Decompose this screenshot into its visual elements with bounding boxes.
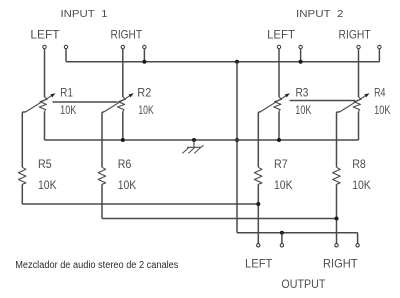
junction ground riser top bbox=[235, 60, 239, 64]
svg-text:R6: R6 bbox=[118, 157, 132, 171]
svg-text:R5: R5 bbox=[38, 157, 52, 171]
resistor R7 body bbox=[254, 167, 262, 184]
wire right output bus L2 bbox=[102, 218, 337, 220]
wire input2 left ground drop bbox=[300, 49, 302, 62]
svg-text:LEFT: LEFT bbox=[267, 28, 295, 42]
wire R3 bottom lead bbox=[278, 112, 280, 140]
potentiometer R3 body bbox=[274, 97, 282, 112]
svg-text:10K: 10K bbox=[352, 178, 371, 192]
terminal output left ground bbox=[280, 244, 283, 247]
terminal input1 right ground bbox=[143, 45, 146, 48]
wire R8 bottom to output terminal bbox=[336, 184, 338, 243]
svg-text:RIGHT: RIGHT bbox=[111, 28, 143, 42]
potentiometer R4 wiper arrow bbox=[340, 95, 368, 112]
svg-text:LEFT: LEFT bbox=[30, 28, 60, 42]
junction right bus R8 bbox=[335, 217, 339, 221]
wire input2 right ground rise bbox=[378, 49, 380, 62]
potentiometer R3 wiper arrow bbox=[260, 95, 288, 112]
wire input2 right signal to R4 bbox=[358, 49, 360, 97]
potentiometer R2 wiper arrowhead bbox=[129, 93, 134, 97]
wire left output bus L1 bbox=[22, 203, 258, 205]
wire ground riser vertical bbox=[236, 62, 238, 233]
wire output right ground drop bbox=[357, 233, 359, 244]
svg-text:OUTPUT: OUTPUT bbox=[281, 277, 326, 291]
wire R4 wiper to vertical bbox=[337, 112, 340, 167]
wire link R3-R4 bbox=[290, 100, 356, 102]
svg-text:10K: 10K bbox=[38, 178, 57, 192]
ground symbol bbox=[192, 138, 196, 142]
svg-text:R8: R8 bbox=[352, 157, 366, 171]
svg-text:R7: R7 bbox=[274, 157, 288, 171]
junction R2 bottom on bus bbox=[121, 138, 125, 142]
wire output left ground drop bbox=[281, 233, 283, 244]
svg-text:10K: 10K bbox=[374, 103, 390, 117]
svg-text:R1: R1 bbox=[60, 85, 73, 99]
potentiometer R1 body bbox=[39, 97, 47, 112]
potentiometer R4 body bbox=[353, 97, 361, 112]
wire R5 bottom to left bus bbox=[21, 184, 23, 204]
svg-text:R4: R4 bbox=[374, 85, 386, 99]
svg-text:10K: 10K bbox=[274, 178, 293, 192]
terminal output left signal bbox=[257, 244, 260, 247]
svg-text:10K: 10K bbox=[118, 178, 137, 192]
wire R4 bottom lead bbox=[358, 112, 360, 140]
terminal input2 right ground bbox=[378, 45, 381, 48]
wire R1 wiper to vertical bbox=[22, 112, 25, 167]
terminal output right signal bbox=[335, 244, 338, 247]
wire R2 bottom lead bbox=[122, 112, 124, 140]
potentiometer R2 wiper arrow bbox=[104, 95, 132, 112]
potentiometer R3 wiper arrowhead bbox=[285, 93, 290, 97]
wire output ground line L3 bbox=[237, 232, 358, 234]
resistor R5 body bbox=[18, 167, 26, 184]
terminal input2 left signal bbox=[277, 45, 280, 48]
svg-text:R3: R3 bbox=[296, 85, 309, 99]
terminal input1 left signal bbox=[43, 45, 46, 48]
wire R7 bottom to output terminal bbox=[257, 184, 259, 243]
wire input1 right signal to R2 bbox=[122, 49, 124, 97]
terminal input2 left ground bbox=[299, 45, 302, 48]
svg-text:INPUT 1: INPUT 1 bbox=[61, 9, 108, 20]
wire R6 bottom to right bus bbox=[101, 184, 103, 218]
wire link R1-R2 bbox=[53, 101, 118, 103]
svg-text:LEFT: LEFT bbox=[245, 257, 273, 271]
svg-text:RIGHT: RIGHT bbox=[323, 257, 358, 271]
terminal input2 right signal bbox=[357, 45, 360, 48]
wire ground bus bbox=[45, 139, 359, 141]
terminal input1 right signal bbox=[121, 45, 124, 48]
potentiometer R2 body bbox=[118, 97, 126, 112]
wire R1 bottom lead bbox=[44, 112, 46, 140]
svg-text:R2: R2 bbox=[137, 85, 151, 99]
terminal output right ground bbox=[356, 244, 359, 247]
junction R3 bottom on bus bbox=[277, 138, 281, 142]
resistor R6 body bbox=[98, 167, 106, 184]
wire input2 left signal to R3 bbox=[278, 49, 280, 97]
wire input ground bus horizontal bbox=[66, 61, 379, 63]
junction input2 left ground bbox=[299, 60, 303, 64]
junction input1 right ground bbox=[142, 60, 146, 64]
potentiometer R1 wiper arrowhead bbox=[50, 93, 55, 97]
junction left bus R7 bbox=[256, 202, 260, 206]
resistor R8 body bbox=[333, 167, 341, 184]
svg-text:INPUT 2: INPUT 2 bbox=[296, 9, 344, 20]
junction riser on ground bus bbox=[235, 138, 239, 142]
wire R2 wiper to vertical bbox=[102, 112, 104, 167]
svg-text:10K: 10K bbox=[138, 103, 153, 117]
wire input1 right ground drop bbox=[143, 49, 145, 62]
potentiometer R1 wiper arrow bbox=[26, 95, 54, 112]
wire input1 left ground drop bbox=[65, 49, 67, 62]
svg-text:Mezclador de audio stereo de 2: Mezclador de audio stereo de 2 canales bbox=[15, 260, 178, 271]
wire R3 wiper to vertical bbox=[258, 112, 260, 167]
svg-text:10K: 10K bbox=[295, 103, 311, 117]
potentiometer R4 wiper arrowhead bbox=[364, 93, 369, 97]
svg-text:RIGHT: RIGHT bbox=[339, 28, 372, 42]
terminal input1 left ground bbox=[64, 45, 67, 48]
junction output left ground bbox=[280, 231, 284, 235]
wire input1 left signal to R1 bbox=[44, 49, 46, 97]
svg-text:10K: 10K bbox=[60, 103, 76, 117]
